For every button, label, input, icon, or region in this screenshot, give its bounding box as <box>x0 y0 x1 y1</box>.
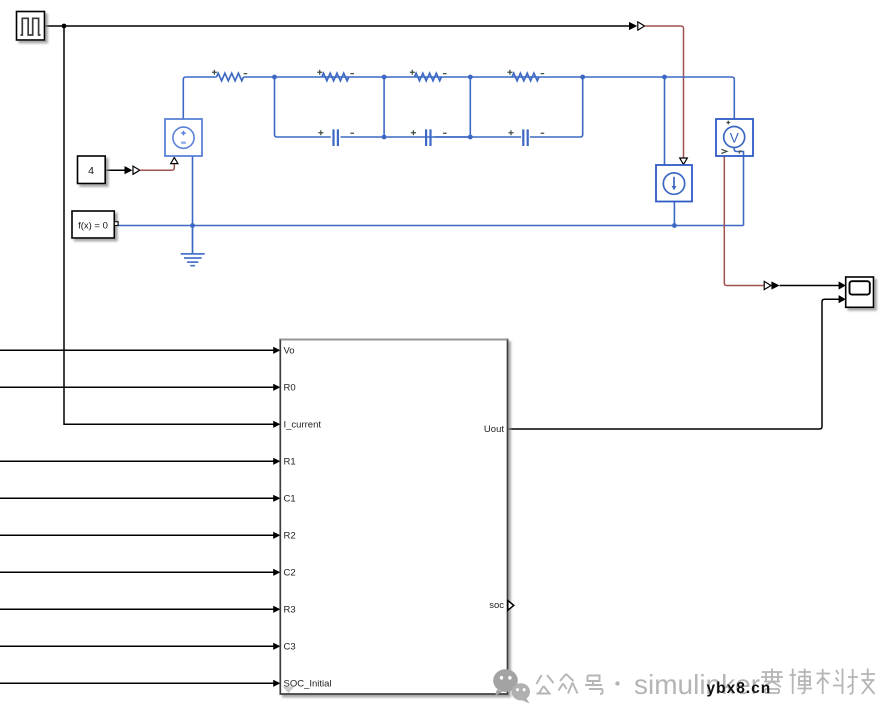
svg-text:C1: C1 <box>284 494 296 505</box>
wire: R1 input <box>0 460 274 462</box>
wire: section divider vertical at junction 3 <box>469 77 471 137</box>
svg-text:ybx8.cn: ybx8.cn <box>707 680 772 697</box>
node: junction 2 top <box>382 75 387 80</box>
polarity marks R3 <box>507 70 544 75</box>
wire: C2 input <box>0 571 274 573</box>
capacitor C2 <box>426 129 430 146</box>
svg-text:C3: C3 <box>284 642 296 653</box>
watermark: WeChat icon <box>493 669 530 703</box>
wire: red control line to voltage source control port <box>140 164 175 170</box>
polarity marks R0 <box>212 70 247 75</box>
wire: top rail junction 2 to junction 3 <box>384 76 583 78</box>
polarity marks C3 <box>509 130 545 135</box>
wire: C3 input <box>0 645 274 647</box>
watermark: grey caption text <box>537 674 620 694</box>
svg-text:V: V <box>730 130 739 145</box>
wire: Uout to scope input 2 <box>508 299 839 429</box>
wire: R0 input <box>0 386 274 388</box>
arrowhead: R0 <box>273 384 280 391</box>
wire: voltage sensor - terminal down to lower rail <box>743 156 745 226</box>
glyph 技 <box>848 669 876 695</box>
node: junction 3 bottom <box>468 135 473 140</box>
svg-text:R3: R3 <box>284 605 296 616</box>
watermark: grey triangle under SOC_Initial <box>283 687 295 694</box>
wire: voltage source + terminal up to top rail <box>183 77 216 119</box>
subsystem block (battery model) <box>280 339 507 694</box>
svg-text:R2: R2 <box>284 531 296 542</box>
port marker: hollow PS-converter triangle (pulse line) <box>638 22 645 30</box>
svg-text:R1: R1 <box>284 457 296 468</box>
arrowhead: SOC_Initial <box>273 680 280 687</box>
arrowhead: C2 <box>273 569 280 576</box>
arrowhead: solid end of constant line <box>125 166 133 174</box>
resistor R2 <box>414 73 441 81</box>
wire: pulse generator output to converter (top horizontal) <box>45 25 631 27</box>
solver configuration block f(x)=0 <box>72 211 118 238</box>
node: junction 4 top rail <box>580 75 585 80</box>
wire: current source - terminal down to lower rail <box>673 202 675 226</box>
wire: section-1 left vertical (junction 1 down to capacitor rail) <box>275 77 331 137</box>
wire: red measurement signal from sensor to converter <box>724 156 763 286</box>
watermark: ybx8.cn <box>707 680 772 697</box>
arrowhead: C1 <box>273 495 280 502</box>
wire: lower rail (solver line) <box>118 225 744 227</box>
glyph 赛 <box>761 669 783 694</box>
wire: C1 input <box>0 497 274 499</box>
current source block (controlled current source) <box>656 165 692 202</box>
svg-text:4: 4 <box>88 165 94 177</box>
arrowhead: R2 <box>273 532 280 539</box>
ground <box>181 226 205 266</box>
resistor R0 <box>217 73 244 81</box>
port marker: hollow triangle into current source control port <box>680 158 688 164</box>
glyph 科 <box>817 669 844 695</box>
glyph 众 <box>559 674 578 694</box>
node: junction at ground / source bottom <box>190 223 195 228</box>
svg-text:C2: C2 <box>284 568 296 579</box>
svg-text:Vo: Vo <box>284 346 295 357</box>
pulse generator block <box>17 12 45 41</box>
wire: red control line to controlled current source <box>645 26 684 158</box>
polarity marks C2 <box>411 130 447 135</box>
port marker: hollow converter triangle (sensor signal) <box>764 281 771 289</box>
wire: black line into scope input 1 <box>780 285 839 287</box>
port marker: hollow triangle up into voltage source <box>171 157 178 163</box>
wire: R3 input <box>0 608 274 610</box>
capacitor C3 <box>523 129 527 146</box>
node: junction 1 (top rail) <box>272 75 277 80</box>
arrowhead: solid start of scope line <box>771 281 779 289</box>
wire: capacitor rail C2 span to C3 and up at right end <box>435 77 583 137</box>
arrowhead: into I_current port <box>273 421 280 428</box>
svg-text:I_current: I_current <box>284 420 322 431</box>
constant block "4" <box>78 156 106 184</box>
node: branch junction on pulse line <box>62 24 67 29</box>
wire: top rail R0 to section 1 <box>244 76 385 78</box>
node: junction 3 top <box>468 75 473 80</box>
svg-text:R0: R0 <box>284 383 296 394</box>
port marker: hollow PS-converter triangle (constant line) <box>133 166 140 174</box>
dot separator <box>615 681 619 685</box>
wire: top rail to voltage sensor + terminal <box>583 77 735 127</box>
port: soc output chevron <box>508 601 514 611</box>
arrowhead: C3 <box>273 643 280 650</box>
wire: R2 input <box>0 534 274 536</box>
arrowhead: solid end of pulse signal line <box>629 22 637 30</box>
arrowhead: scope input 1 <box>839 281 846 289</box>
wire: section divider vertical at junction 2 <box>383 77 385 137</box>
scope block <box>846 277 874 307</box>
glyph 博 <box>790 669 813 695</box>
glyph 号 <box>585 676 603 695</box>
node: junction current source on lower rail <box>672 223 677 228</box>
wire: branch down to I_current input port <box>64 26 274 424</box>
wire: Vo input <box>0 349 274 351</box>
polarity marks C1 <box>318 130 354 135</box>
resistor R1 <box>322 73 349 81</box>
wire: SOC_Initial input <box>0 682 274 684</box>
arrowhead: scope input 2 <box>839 295 846 303</box>
voltage source U1 (controlled voltage source) <box>165 119 202 156</box>
wire: constant 4 output <box>105 169 125 171</box>
wire: voltage source - terminal down to lower rail <box>192 156 194 226</box>
arrowhead: Vo <box>273 347 280 354</box>
voltage sensor block <box>716 119 753 156</box>
arrowhead: R3 <box>273 606 280 613</box>
resistor R3 <box>512 73 539 81</box>
polarity marks R1 <box>317 70 354 75</box>
watermark: simulinker <box>634 669 760 700</box>
node: branch to current source top <box>662 75 667 80</box>
watermark: CJK tail 赛博科技 <box>761 669 875 695</box>
svg-text:soc: soc <box>489 600 504 611</box>
svg-text:Uout: Uout <box>484 424 504 435</box>
glyph 公 <box>537 675 554 694</box>
polarity marks R2 <box>410 70 447 75</box>
node: junction 2 bottom <box>382 135 387 140</box>
wire: capacitor rail C1 to junction 2 <box>341 136 471 138</box>
arrowhead: R1 <box>273 458 280 465</box>
capacitor C1 <box>334 129 338 146</box>
wire: down to current source + terminal <box>664 77 666 165</box>
svg-text:f(x) = 0: f(x) = 0 <box>78 220 108 231</box>
